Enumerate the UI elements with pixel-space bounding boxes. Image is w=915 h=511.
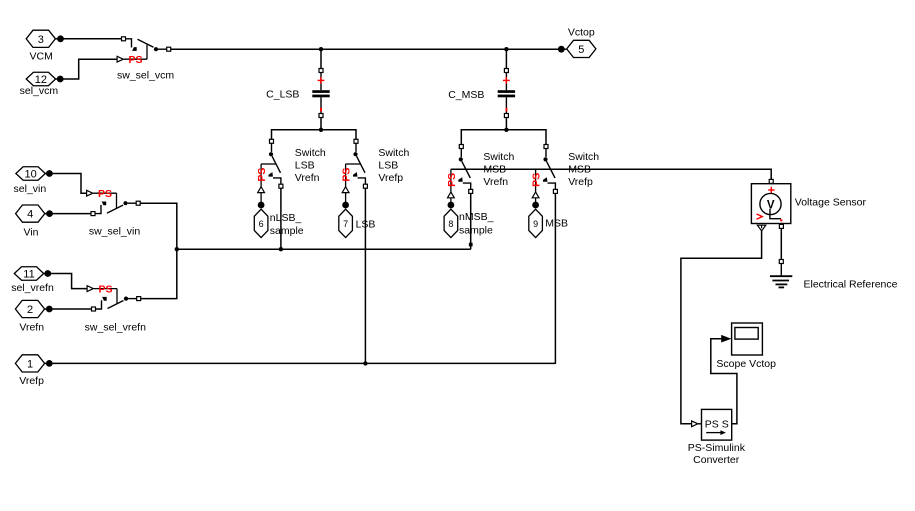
input port 2 (Vrefn) <box>15 300 52 317</box>
junction common/MSB Vrefn <box>469 243 473 247</box>
svg-text:Vin: Vin <box>24 226 39 238</box>
label Switch MSB Vrefn <box>483 151 514 188</box>
switch Switch LSB Vrefp <box>341 139 368 192</box>
switch sw_sel_vin <box>87 188 141 216</box>
port 8 connection dot <box>448 202 455 209</box>
input port 10 (sel_vin) <box>16 167 53 181</box>
junction top rail / C_LSB <box>319 47 323 51</box>
wire sensor to ground <box>780 228 782 259</box>
svg-text:6: 6 <box>259 219 264 229</box>
switch Switch LSB Vrefn <box>256 139 283 192</box>
svg-text:Scope Vctop: Scope Vctop <box>716 358 776 370</box>
wire port2 to sw_sel_vrefn <box>52 308 91 310</box>
svg-text:7: 7 <box>343 219 348 229</box>
svg-text:Vctop: Vctop <box>568 27 595 39</box>
wire port4 to sw_sel_vin <box>53 213 92 215</box>
label Switch MSB Vrefp <box>568 151 599 188</box>
label nMSB_ sample <box>459 211 494 236</box>
control port 8 <box>444 209 458 237</box>
svg-text:LSB: LSB <box>378 160 398 172</box>
scope block <box>732 323 763 355</box>
junction top rail / C_MSB <box>504 47 508 51</box>
PS-Simulink converter block <box>692 409 732 440</box>
svg-text:10: 10 <box>24 169 36 181</box>
svg-text:sw_sel_vin: sw_sel_vin <box>89 226 141 238</box>
svg-text:PS: PS <box>446 173 458 187</box>
wire port10 to sw_sel_vin PS <box>52 174 86 194</box>
wire PS stem port 6 <box>260 193 262 202</box>
svg-text:Switch: Switch <box>483 151 514 163</box>
svg-text:11: 11 <box>23 269 34 281</box>
svg-text:Electrical Reference: Electrical Reference <box>804 279 898 291</box>
output port 5 (Vctop) <box>558 40 596 57</box>
wire MSB Vrefp riser <box>554 362 556 365</box>
junction C_LSB rail <box>319 128 323 132</box>
label PS-Simulink Converter <box>688 442 746 466</box>
svg-text:9: 9 <box>533 219 538 229</box>
svg-text:Switch: Switch <box>295 147 326 159</box>
label Switch LSB Vrefn <box>295 147 326 184</box>
svg-text:8: 8 <box>448 219 453 229</box>
svg-text:C_LSB: C_LSB <box>266 88 299 100</box>
switch sw_sel_vcm <box>117 37 171 66</box>
svg-text:sel_vrefn: sel_vrefn <box>11 282 54 294</box>
svg-text:2: 2 <box>27 304 33 316</box>
svg-text:MSB: MSB <box>545 218 568 230</box>
svg-text:Vrefn: Vrefn <box>295 172 320 184</box>
junction C_MSB rail <box>504 128 508 132</box>
svg-text:4: 4 <box>27 209 33 221</box>
wire LSB Vrefn output <box>280 188 282 249</box>
voltage sensor block <box>751 179 790 231</box>
junction Vrefp/LSB Vrefp <box>363 361 367 365</box>
port 6 connection dot <box>258 202 265 209</box>
svg-text:PS: PS <box>128 54 142 66</box>
wire top rail Vctop <box>171 48 562 50</box>
wire to voltage sensor <box>451 169 771 179</box>
wire common line (Vin/Vrefn) <box>177 248 471 250</box>
wire MSB Vrefp output <box>554 193 556 363</box>
svg-text:V: V <box>767 199 775 211</box>
ground terminal sq <box>779 260 783 264</box>
svg-text:PS: PS <box>98 188 112 200</box>
wire C_MSB bottom rail <box>461 130 546 145</box>
svg-text:PS-Simulink: PS-Simulink <box>688 442 746 454</box>
svg-text:nLSB_: nLSB_ <box>270 212 302 224</box>
svg-text:LSB: LSB <box>295 160 315 172</box>
wire converter to scope <box>711 339 737 424</box>
input port 12 (sel_vcm) <box>26 72 63 86</box>
wire MSB Vrefn output <box>470 193 472 249</box>
label Switch LSB Vrefp <box>378 147 409 184</box>
switch Switch MSB Vrefn <box>446 145 473 198</box>
wire port11 to sw_sel_vrefn PS <box>51 274 87 289</box>
wire sensor PS to converter <box>681 231 762 424</box>
svg-text:Vrefp: Vrefp <box>568 176 593 188</box>
electrical reference (ground) <box>770 264 792 288</box>
wire Vrefp line <box>53 362 556 364</box>
junction common/sw_sel <box>175 247 179 251</box>
junction common/LSB Vrefn <box>279 247 283 251</box>
wire LSB Vrefp output <box>364 188 366 363</box>
capacitor C_LSB <box>312 49 329 130</box>
svg-text:C_MSB: C_MSB <box>448 89 484 101</box>
svg-text:PS: PS <box>256 168 268 182</box>
svg-text:sample: sample <box>270 225 304 237</box>
svg-text:PS: PS <box>98 284 112 296</box>
svg-text:Vrefn: Vrefn <box>483 176 508 188</box>
svg-text:sel_vin: sel_vin <box>14 183 47 195</box>
svg-text:Converter: Converter <box>693 454 740 466</box>
svg-text:Vrefp: Vrefp <box>378 172 403 184</box>
control port 6 <box>254 209 268 237</box>
scope input arrow <box>721 335 731 343</box>
svg-text:3: 3 <box>38 34 44 46</box>
svg-text:Switch: Switch <box>568 151 599 163</box>
svg-text:5: 5 <box>578 44 584 56</box>
svg-text:PS: PS <box>531 173 543 187</box>
wire PS stem port 8 <box>450 198 452 202</box>
svg-text:Vrefp: Vrefp <box>19 375 44 387</box>
input port 3 (VCM) <box>26 30 64 47</box>
svg-text:PS: PS <box>341 168 353 182</box>
control port 9 <box>529 209 543 237</box>
input port 1 (Vrefp) <box>15 355 52 372</box>
label nLSB_ sample <box>270 212 304 237</box>
control port 7 <box>339 209 353 237</box>
port 7 connection dot <box>342 202 349 209</box>
input port 11 (sel_vrefn) <box>14 267 51 281</box>
wire PS stem port 7 <box>345 193 347 202</box>
switch Switch MSB Vrefp <box>531 145 558 198</box>
svg-text:1: 1 <box>27 359 33 371</box>
wire port12 to sw_sel_vcm PS <box>63 59 117 79</box>
svg-text:VCM: VCM <box>30 50 53 62</box>
svg-text:sw_sel_vrefn: sw_sel_vrefn <box>85 322 146 334</box>
wire C_LSB bottom rail <box>272 130 357 140</box>
switch sw_sel_vrefn <box>87 284 141 312</box>
port 9 connection dot <box>532 202 539 209</box>
svg-text:nMSB_: nMSB_ <box>459 211 494 223</box>
svg-text:sw_sel_vcm: sw_sel_vcm <box>117 69 174 81</box>
svg-text:Switch: Switch <box>378 147 409 159</box>
wire port3 to sw_sel_vcm <box>63 38 121 40</box>
capacitor C_MSB <box>498 49 515 130</box>
wire PS stem port 9 <box>535 198 537 202</box>
svg-text:PS S: PS S <box>705 418 729 430</box>
svg-text:Vrefn: Vrefn <box>19 321 44 333</box>
svg-text:sample: sample <box>459 225 493 237</box>
input port 4 (Vin) <box>16 205 53 222</box>
svg-text:sel_vcm: sel_vcm <box>20 85 59 97</box>
svg-text:Voltage Sensor: Voltage Sensor <box>795 197 867 209</box>
wire sw_sel_vin output <box>140 203 177 298</box>
